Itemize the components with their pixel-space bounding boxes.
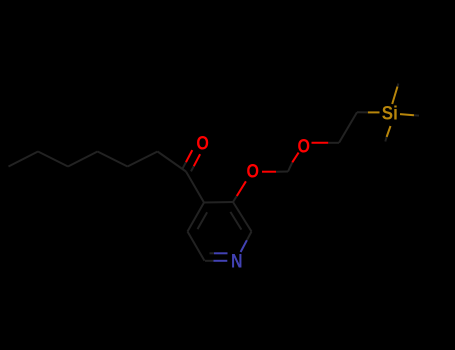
bond Si-CH3 down (olive) — [387, 126, 391, 137]
ring bond C2=C3 inner — [230, 212, 241, 230]
bond Si-CH3 right (olive) — [400, 114, 414, 115]
bond chain C7-C6 — [9, 152, 39, 167]
ring bond C4-C5 — [188, 203, 205, 232]
bond C1=O double line (gray half) — [183, 162, 187, 169]
bond O1-CH2 (red half) — [262, 171, 276, 173]
bond O2-CH2a (red half) — [312, 142, 329, 144]
bond C1-ring C4 — [186, 172, 204, 203]
bond CH2-O2 (red half) — [292, 153, 298, 163]
bond chain C2-C1 — [158, 152, 187, 172]
bond O2-CH2a (gray half) — [328, 142, 339, 144]
bond C3-O1 (red half) — [237, 181, 246, 196]
ring bond C3-C2 — [233, 202, 252, 232]
svg-text:O: O — [247, 161, 260, 183]
bond CH2b-Si (olive half) — [368, 111, 380, 113]
bond CH2b-Si (gray half) — [357, 111, 368, 113]
bond Si-CH3 up (olive) — [392, 87, 397, 105]
ring bond N1-C2 (gray half) — [247, 232, 252, 241]
bond Si-CH3 down (gray tip) — [385, 137, 386, 142]
bond chain C4-C3 — [98, 152, 128, 167]
svg-text:N: N — [231, 250, 243, 272]
bond C1=O double line (red half) — [186, 150, 192, 162]
bond CH2a-CH2b — [339, 112, 357, 143]
bond chain C6-C5 — [38, 152, 68, 167]
bond C1=O double line (red half) — [194, 154, 200, 166]
ring bond N1=C6 inner (gray half) — [210, 252, 215, 254]
bond CH2-O2 (gray half) — [288, 162, 292, 171]
bond C3-O1 (gray half) — [233, 196, 237, 202]
svg-text:O: O — [196, 132, 209, 154]
bond chain C5-C4 — [68, 152, 98, 167]
bond chain C3-C2 — [128, 152, 158, 167]
svg-text:O: O — [297, 135, 310, 157]
ring bond N1-C2 (blue half) — [241, 240, 247, 252]
ring bond N1=C6 main (blue half) — [214, 260, 228, 262]
ring bond N1=C6 inner (blue half) — [214, 252, 228, 254]
ring bond C4=C5 inner — [198, 212, 208, 229]
svg-text:Si: Si — [382, 104, 398, 125]
bond Si-CH3 right (gray tip) — [414, 114, 419, 116]
bond C1=O double line (gray half) — [191, 166, 194, 172]
bond O1-CH2 (gray half) — [276, 171, 288, 173]
bond Si-CH3 up (gray tip) — [397, 84, 400, 87]
ring bond C5-C6 — [188, 232, 205, 261]
ring bond N1=C6 main (gray half) — [205, 260, 214, 262]
ring bond C4-C3 — [204, 201, 233, 204]
